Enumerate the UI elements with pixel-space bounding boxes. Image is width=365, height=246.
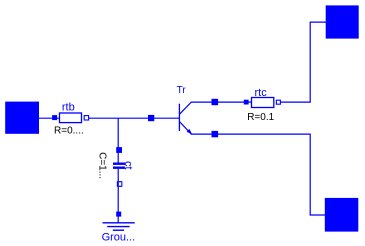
ground pin square xyxy=(116,212,121,217)
svg-text:rtb: rtb xyxy=(62,101,75,113)
base pin square of Tr xyxy=(148,115,154,121)
transistor Tr xyxy=(179,102,212,134)
wire P1 to rtb xyxy=(39,117,60,119)
resistor rtb xyxy=(52,113,89,123)
svg-text:C=1...: C=1... xyxy=(97,152,108,179)
capacitor ct plates xyxy=(113,163,125,169)
wire node B down to capacitor ct xyxy=(117,118,119,164)
wire emitter to bottom-right connector xyxy=(218,134,325,215)
svg-text:Grou...: Grou... xyxy=(102,231,136,243)
wire rtc to top-right connector xyxy=(281,22,326,102)
emitter pin square of Tr xyxy=(212,131,219,137)
pin connector P3 (bottom right blue square) xyxy=(325,198,359,232)
ground symbol xyxy=(103,223,135,230)
svg-text:Tr: Tr xyxy=(177,85,187,96)
svg-text:R=0.1: R=0.1 xyxy=(247,112,274,123)
pin connector P2 (top right blue square) xyxy=(326,5,359,38)
wire capacitor to ground xyxy=(117,169,119,223)
resistor rtc xyxy=(244,98,281,108)
svg-text:R=0....: R=0.... xyxy=(54,125,84,136)
svg-text:rtc: rtc xyxy=(254,87,267,99)
collector pin square of Tr xyxy=(212,99,219,105)
wire rtb to transistor base (node B) xyxy=(89,117,179,119)
capacitor bottom pin square (hollow) xyxy=(117,182,121,187)
pin connector P1 (left blue square) xyxy=(5,102,39,134)
svg-text:ct: ct xyxy=(122,161,134,170)
wire collector to rtc xyxy=(218,101,251,103)
capacitor top pin square xyxy=(116,147,122,153)
